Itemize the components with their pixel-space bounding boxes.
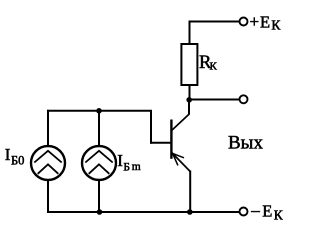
- wire: left source bottom lead: [47, 180, 49, 214]
- svg-text:Б0: Б0: [11, 154, 24, 168]
- terminal output: [240, 95, 248, 103]
- wire: base horizontal from feed column to base bar: [151, 142, 171, 144]
- svg-text:+: +: [250, 12, 260, 31]
- svg-text:E: E: [262, 202, 272, 221]
- wire: left source top lead: [47, 110, 49, 147]
- svg-text:m: m: [132, 161, 141, 173]
- transistor VT: collector diagonal: [172, 114, 190, 131]
- current source IBm upper chevron: [85, 151, 112, 163]
- current source IBm body: [82, 146, 116, 180]
- svg-text:К: К: [210, 61, 218, 73]
- resistor RK: [181, 44, 197, 85]
- wire: vertical feed from top rail down to base level: [150, 111, 152, 144]
- svg-text:Б: Б: [123, 162, 130, 174]
- transistor VT: emitter arrowhead barb lower: [173, 153, 178, 165]
- transistor VT: emitter arrowhead barb upper: [173, 153, 184, 157]
- wire: emitter vertical down to bottom rail: [189, 171, 191, 213]
- svg-text:К: К: [271, 18, 281, 33]
- wire: right source top lead: [98, 111, 100, 147]
- transistor VT: emitter diagonal: [172, 153, 190, 172]
- wire: horizontal from collector node to output terminal: [189, 99, 239, 101]
- current source IB0 body: [31, 146, 65, 180]
- svg-text:–: –: [250, 201, 260, 220]
- transistor VT: base bar: [170, 120, 172, 159]
- terminal +EK: [240, 18, 248, 26]
- svg-text:I: I: [117, 151, 123, 170]
- wire: vertical from top wire down to resistor RK top: [189, 21, 191, 45]
- wire: vertical from resistor RK bottom to collector node: [189, 85, 191, 100]
- terminal -EK: [240, 208, 248, 216]
- wire: top horizontal from collector column to +EK terminal: [189, 21, 240, 23]
- junction: top rail and IBm source: [96, 108, 102, 114]
- current source IBm lower chevron: [89, 164, 110, 174]
- junction: bottom rail and IBm source: [97, 209, 103, 215]
- current source IB0 upper chevron: [34, 151, 61, 163]
- svg-text:E: E: [260, 12, 270, 31]
- transistor VT (PNP): collector wire: [188, 100, 190, 115]
- junction: collector node: [186, 97, 192, 103]
- current source IB0 lower chevron: [38, 164, 59, 174]
- svg-text:Вых: Вых: [228, 132, 263, 153]
- svg-text:I: I: [5, 145, 11, 164]
- junction: bottom rail and emitter: [187, 209, 193, 215]
- wire: right source bottom lead: [98, 180, 100, 213]
- svg-text:К: К: [274, 207, 284, 222]
- wire: top rail joining current sources to base feed: [47, 110, 152, 112]
- wire: bottom rail: [47, 211, 240, 213]
